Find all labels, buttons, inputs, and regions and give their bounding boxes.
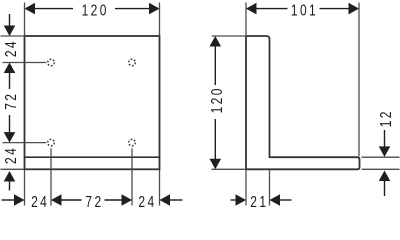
dim 120 arrow right [115, 8, 150, 10]
dim 21 arrow into bar right [270, 194, 281, 206]
dim 120 side arrow down [214, 119, 216, 159]
extension line below bar right edge [269, 170, 271, 206]
extension line to upper hole [3, 62, 47, 64]
extension line to lower hole [3, 142, 47, 144]
extension line below plate left edge [24, 170, 26, 206]
extension line from shelf end up [358, 3, 360, 157]
dim 72 arrow down [9, 115, 11, 133]
svg-text:12: 12 [376, 109, 394, 127]
extension line above plate left corner [24, 3, 26, 36]
extension line below bar left edge [245, 170, 247, 206]
svg-text:24: 24 [138, 192, 156, 210]
bottom dim arrow into plate left edge [2, 199, 15, 201]
extension line shelf bottom right [362, 168, 400, 170]
side view bracket outline [246, 36, 360, 169]
extension line below plate right edge [159, 170, 161, 206]
svg-text:24: 24 [1, 39, 19, 57]
extension line below left holes [50, 148, 52, 205]
left dim arrow down to plate top [9, 14, 11, 26]
bottom dim arrow into plate right edge [160, 194, 171, 206]
dim 72 bottom arrow left [51, 194, 62, 206]
dim 12 arrow down to shelf [384, 130, 386, 147]
hole bottom-left [48, 139, 55, 146]
extension line above plate right corner [159, 3, 161, 36]
extension line below right holes [131, 148, 133, 205]
extension line side bottom [212, 168, 246, 170]
extension line plate bottom left [1, 168, 24, 170]
dim 101 arrow left [246, 3, 257, 15]
svg-text:120: 120 [82, 1, 109, 19]
front view shelf edge line [25, 156, 160, 158]
svg-text:21: 21 [250, 192, 268, 210]
dim 72 arrow up [4, 63, 16, 74]
svg-text:120: 120 [207, 86, 225, 113]
dim 101 arrow right [320, 8, 350, 10]
dim 12 arrow up to shelf bottom [379, 171, 391, 182]
extension line plate top left [1, 35, 24, 37]
svg-text:72: 72 [1, 92, 19, 110]
dim 72 bottom arrow right [105, 199, 123, 201]
hole top-right [129, 59, 136, 66]
front view plate outline [25, 36, 160, 169]
hole top-left [48, 59, 55, 66]
extension line shelf top right [362, 156, 400, 158]
dim 21 arrow into bar left [231, 199, 237, 201]
dim 120 side arrow up [210, 36, 222, 47]
hole bottom-right [129, 139, 136, 146]
dim 120 arrow left [25, 3, 36, 15]
svg-text:101: 101 [291, 1, 318, 19]
svg-text:72: 72 [85, 192, 103, 210]
extension line above bar left edge [245, 3, 247, 36]
left dim arrow up to plate bottom [4, 171, 16, 182]
svg-text:24: 24 [1, 146, 19, 164]
svg-text:24: 24 [31, 192, 49, 210]
extension line side top [212, 35, 246, 37]
